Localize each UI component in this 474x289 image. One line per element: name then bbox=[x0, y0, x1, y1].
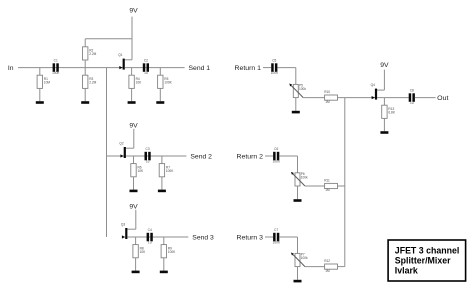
svg-text:100K: 100K bbox=[164, 81, 172, 85]
svg-text:R11: R11 bbox=[324, 178, 330, 182]
svg-text:10M: 10M bbox=[44, 81, 51, 85]
svg-text:9V: 9V bbox=[129, 123, 138, 130]
svg-text:R12: R12 bbox=[324, 259, 330, 263]
svg-text:1u: 1u bbox=[146, 160, 150, 164]
svg-text:100n: 100n bbox=[273, 241, 280, 245]
svg-text:Send 2: Send 2 bbox=[190, 153, 212, 160]
svg-text:9V: 9V bbox=[129, 7, 138, 14]
svg-text:9V: 9V bbox=[129, 204, 138, 211]
svg-text:1u: 1u bbox=[144, 71, 148, 75]
svg-text:C8: C8 bbox=[410, 89, 414, 93]
svg-text:C2: C2 bbox=[144, 59, 148, 63]
svg-text:10K: 10K bbox=[140, 250, 147, 254]
svg-text:Ivlark: Ivlark bbox=[395, 265, 418, 275]
svg-text:100k: 100k bbox=[299, 87, 306, 91]
svg-text:Return 3: Return 3 bbox=[237, 234, 264, 241]
svg-text:100k: 100k bbox=[301, 256, 308, 260]
svg-text:10K: 10K bbox=[136, 81, 143, 85]
svg-text:1M: 1M bbox=[325, 188, 330, 192]
svg-text:Send 3: Send 3 bbox=[192, 234, 214, 241]
svg-text:6.8K: 6.8K bbox=[388, 111, 395, 115]
svg-text:C1: C1 bbox=[54, 59, 58, 63]
svg-text:1u: 1u bbox=[148, 241, 152, 245]
svg-text:In: In bbox=[8, 65, 14, 72]
svg-text:2.2M: 2.2M bbox=[89, 81, 96, 85]
svg-text:Q1: Q1 bbox=[118, 53, 122, 57]
svg-text:C7: C7 bbox=[274, 228, 278, 232]
svg-text:C5: C5 bbox=[272, 59, 276, 63]
svg-text:C4: C4 bbox=[148, 228, 152, 232]
svg-text:1M: 1M bbox=[325, 269, 330, 273]
svg-text:Splitter/Mixer: Splitter/Mixer bbox=[395, 255, 451, 265]
svg-text:100K: 100K bbox=[168, 250, 176, 254]
svg-text:10K: 10K bbox=[138, 169, 145, 173]
svg-text:Send 1: Send 1 bbox=[189, 65, 211, 72]
svg-text:Return 2: Return 2 bbox=[237, 153, 264, 160]
svg-text:Q4: Q4 bbox=[371, 83, 375, 87]
svg-text:1M: 1M bbox=[325, 100, 330, 104]
svg-text:Q3: Q3 bbox=[121, 223, 125, 227]
svg-text:9V: 9V bbox=[380, 62, 389, 69]
svg-text:100n: 100n bbox=[52, 71, 59, 75]
svg-text:100K: 100K bbox=[166, 169, 174, 173]
svg-text:Out: Out bbox=[437, 95, 448, 102]
svg-text:R10: R10 bbox=[324, 90, 330, 94]
svg-text:100k: 100k bbox=[301, 175, 308, 179]
svg-text:100n: 100n bbox=[271, 71, 278, 75]
svg-text:100n: 100n bbox=[273, 160, 280, 164]
svg-text:1u: 1u bbox=[410, 101, 414, 105]
svg-text:C3: C3 bbox=[146, 147, 150, 151]
svg-text:Return 1: Return 1 bbox=[235, 65, 262, 72]
svg-text:C6: C6 bbox=[274, 147, 278, 151]
svg-text:2.2M: 2.2M bbox=[89, 52, 96, 56]
svg-text:Q2: Q2 bbox=[119, 142, 123, 146]
svg-text:JFET 3 channel: JFET 3 channel bbox=[395, 245, 460, 255]
